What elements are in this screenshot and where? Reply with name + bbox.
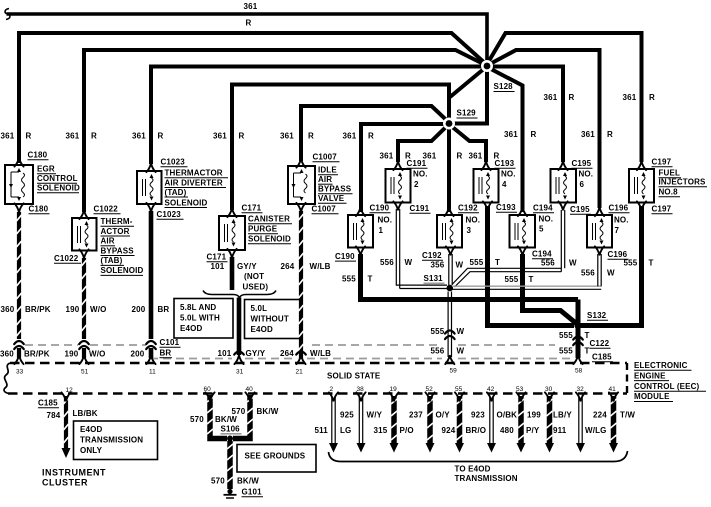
connector chevrons C122 on S132 wire bbox=[573, 337, 583, 346]
svg-text:T: T bbox=[368, 275, 373, 284]
svg-text:R: R bbox=[91, 132, 97, 141]
G101 label bbox=[242, 488, 264, 497]
svg-text:C185: C185 bbox=[592, 353, 612, 362]
svg-text:480: 480 bbox=[500, 426, 514, 435]
label 570 BK/W right wire bbox=[232, 407, 279, 416]
svg-text:361: 361 bbox=[581, 130, 595, 139]
svg-text:C1023: C1023 bbox=[157, 210, 182, 219]
injector C194 NO.5 box bbox=[510, 215, 536, 248]
connector symbols C1023 wire at interface C101 bbox=[146, 341, 156, 349]
label 101 GY/Y below bbox=[218, 349, 266, 358]
thin bus S131 right to C196 bbox=[452, 286, 601, 289]
injector C195 NO.6 box bbox=[551, 169, 577, 203]
label 555 W above connector bbox=[431, 327, 465, 336]
label GY/Y (NOT USED) bbox=[237, 262, 268, 292]
NO. 3 text bbox=[466, 216, 481, 236]
injector C191 NO.2 box bbox=[386, 169, 411, 203]
C195 label bottom bbox=[570, 205, 591, 214]
connector chevron bottom of C1022 bbox=[79, 249, 88, 257]
C191 label bottom bbox=[410, 204, 431, 213]
svg-text:TO E4OD: TO E4OD bbox=[455, 465, 491, 474]
svg-text:BK/W: BK/W bbox=[237, 477, 259, 486]
svg-text:C196: C196 bbox=[609, 204, 629, 213]
svg-text:AIR: AIR bbox=[318, 175, 332, 184]
svg-text:P/O: P/O bbox=[400, 426, 414, 435]
wire L2 to C180 bbox=[19, 33, 487, 163]
svg-text:C192: C192 bbox=[422, 251, 442, 260]
C1023 label bottom bbox=[157, 210, 184, 219]
S128 label bbox=[494, 82, 515, 92]
svg-text:W/LG: W/LG bbox=[585, 426, 606, 435]
svg-text:SOLENOID: SOLENOID bbox=[248, 235, 291, 244]
svg-text:MODULE: MODULE bbox=[634, 392, 670, 401]
label 555 T below C122 bbox=[559, 347, 590, 356]
label 556 W on C195 wire bbox=[541, 259, 577, 268]
label 361 R for C180 drop bbox=[1, 132, 32, 141]
svg-text:S131: S131 bbox=[424, 274, 444, 283]
wire 555 T from C190 to S132 bbox=[361, 254, 579, 300]
svg-text:C191: C191 bbox=[407, 159, 427, 168]
label 361 R for C171 drop bbox=[213, 132, 245, 141]
svg-text:SOLENOID: SOLENOID bbox=[101, 266, 144, 275]
fork at pin 59 bbox=[445, 356, 454, 364]
svg-text:556: 556 bbox=[380, 258, 394, 267]
EEC module dashed box top edge bbox=[10, 362, 627, 364]
connector chevron top of C1007 bbox=[296, 159, 305, 167]
gray connector interface line upper (C101 level) bbox=[25, 344, 555, 346]
label 237 O/Y bbox=[409, 411, 450, 420]
ground symbol G101 bbox=[224, 489, 237, 498]
svg-text:784: 784 bbox=[47, 411, 61, 420]
wire S128 diagonal to C194 drop bbox=[489, 68, 523, 212]
label 361 R for C191 drop bbox=[380, 152, 412, 161]
svg-text:E4OD: E4OD bbox=[180, 324, 202, 333]
pin 32 wire 911 W/LG bbox=[576, 392, 585, 452]
fork at pin 12 top bbox=[61, 392, 70, 400]
svg-text:11: 11 bbox=[149, 369, 156, 376]
EGR control solenoid C180 box bbox=[5, 165, 33, 204]
chevron bottom C190 bbox=[356, 246, 365, 254]
svg-text:511: 511 bbox=[315, 426, 329, 435]
svg-text:C1007: C1007 bbox=[313, 153, 338, 162]
svg-text:190: 190 bbox=[65, 350, 79, 359]
svg-text:55: 55 bbox=[455, 386, 463, 393]
svg-text:(TAD): (TAD) bbox=[165, 188, 187, 197]
C193 label top bbox=[495, 159, 516, 168]
svg-text:C194: C194 bbox=[533, 204, 553, 213]
C1022 label top bbox=[94, 205, 121, 214]
C185 label left bbox=[38, 399, 59, 408]
svg-text:VALVE: VALVE bbox=[318, 194, 345, 203]
S132 label bbox=[587, 311, 608, 320]
SEE GROUNDS box bbox=[237, 445, 316, 473]
svg-text:GY/Y: GY/Y bbox=[237, 262, 257, 271]
svg-text:THERMACTOR: THERMACTOR bbox=[165, 169, 223, 178]
THERMACTOR AIR BYPASS (TAB) SOLENOID text bbox=[101, 217, 144, 275]
svg-text:C191: C191 bbox=[410, 204, 430, 213]
svg-text:BR/PK: BR/PK bbox=[25, 305, 51, 314]
connector chevrons on pin 59 wire bbox=[445, 331, 455, 340]
wire stub to EEC pin 11 bbox=[149, 348, 154, 358]
svg-text:NO.8: NO.8 bbox=[659, 188, 679, 197]
svg-text:NO.: NO. bbox=[378, 216, 393, 225]
wire 200 BR solid below C1023 bbox=[149, 211, 154, 339]
wire S128 down then left to S129 bbox=[452, 68, 487, 124]
label 190 W/O above connector bbox=[66, 305, 107, 314]
svg-text:LB/Y: LB/Y bbox=[553, 411, 572, 420]
5.8L AND 5.0L WITH E4OD option box bbox=[174, 299, 233, 339]
splice node S129 bbox=[443, 118, 455, 130]
splice node S131 bbox=[447, 285, 454, 292]
C192 356 label bottom bbox=[422, 251, 445, 270]
wire 555 T from C194 to S132 bbox=[523, 254, 578, 324]
label 911 W/LG bbox=[553, 426, 606, 435]
pin 12 wire 784 LB/BK hatched to instrument cluster bbox=[64, 396, 69, 448]
C193 label bottom bbox=[496, 203, 517, 212]
svg-text:570: 570 bbox=[211, 477, 225, 486]
svg-text:C185: C185 bbox=[38, 399, 58, 408]
svg-text:C192: C192 bbox=[458, 204, 478, 213]
label 264 W/LB below bbox=[280, 349, 331, 358]
svg-text:G101: G101 bbox=[242, 488, 263, 497]
label 360 BR/PK below connector bbox=[0, 350, 50, 359]
label 361 R for C1022 drop bbox=[66, 132, 98, 141]
label 555 T above C122 bbox=[559, 331, 590, 340]
svg-text:C171: C171 bbox=[207, 253, 227, 262]
thin wire S131 down to EEC pin 59 bbox=[448, 292, 451, 358]
wire L5 to C171 and down to S129 bbox=[232, 85, 449, 211]
svg-text:R: R bbox=[368, 132, 374, 141]
svg-text:59: 59 bbox=[450, 368, 458, 375]
svg-text:315: 315 bbox=[374, 426, 388, 435]
CANISTER PURGE SOLENOID text bbox=[248, 215, 292, 244]
forks at pins 60 and 40 bbox=[205, 392, 254, 400]
C171 101 label bottom bbox=[207, 253, 228, 271]
svg-text:R: R bbox=[607, 130, 613, 139]
svg-text:C190: C190 bbox=[370, 204, 390, 213]
svg-text:BR: BR bbox=[160, 349, 172, 358]
svg-text:361: 361 bbox=[343, 132, 357, 141]
C190 label bottom bbox=[335, 252, 356, 261]
chevron bottom C197 bbox=[637, 201, 646, 209]
svg-text:T: T bbox=[585, 347, 590, 356]
svg-text:AIR DIVERTER: AIR DIVERTER bbox=[165, 178, 223, 187]
svg-text:556: 556 bbox=[581, 269, 595, 278]
splice node S106 bbox=[227, 436, 233, 442]
pin 19 wire 315 P/O bbox=[389, 392, 398, 452]
svg-text:3: 3 bbox=[467, 226, 472, 235]
wire S129 straight down to C192 bbox=[447, 125, 451, 212]
svg-text:CANISTER: CANISTER bbox=[248, 215, 290, 224]
label 784 LB/BK bbox=[47, 409, 98, 420]
svg-text:O/Y: O/Y bbox=[436, 411, 451, 420]
label 360 BR/PK above connector bbox=[1, 305, 51, 314]
svg-text:224: 224 bbox=[593, 411, 607, 420]
label 200 BR above connector bbox=[132, 305, 170, 314]
svg-text:356: 356 bbox=[431, 261, 445, 270]
thin wire 556 W from C191 to S131 bbox=[396, 209, 447, 289]
svg-text:S129: S129 bbox=[457, 109, 477, 118]
thin wire S131 diagonal to C195 bbox=[452, 210, 565, 287]
svg-text:58: 58 bbox=[575, 368, 583, 375]
wire L6 to C1007 and diagonal to S129 bbox=[301, 106, 449, 161]
svg-text:TRANSMISSION: TRANSMISSION bbox=[80, 436, 143, 445]
svg-text:R: R bbox=[457, 152, 463, 161]
svg-text:S128: S128 bbox=[494, 82, 514, 91]
svg-text:C195: C195 bbox=[572, 159, 592, 168]
chevron top C192 bbox=[444, 208, 453, 216]
injector C196 NO.7 box bbox=[587, 215, 612, 248]
injector C190 NO.1 box bbox=[348, 215, 373, 248]
C196 label top bbox=[609, 204, 630, 213]
svg-text:42: 42 bbox=[487, 386, 495, 393]
label 556 W on C191 wire bbox=[380, 258, 413, 267]
label 361 R for C194 drop bbox=[504, 130, 537, 139]
thermactor air bypass TAB solenoid C1022 box bbox=[72, 218, 97, 251]
svg-text:WITHOUT: WITHOUT bbox=[251, 315, 289, 324]
chevron bottom C192 bbox=[446, 246, 455, 254]
svg-text:361: 361 bbox=[213, 132, 227, 141]
pin 38 wire 925 W/Y bbox=[356, 392, 365, 452]
svg-text:19: 19 bbox=[390, 386, 398, 393]
svg-text:W/Y: W/Y bbox=[367, 411, 383, 420]
svg-text:THERM-: THERM- bbox=[101, 217, 133, 226]
pin 30 wire 199 LB/Y bbox=[545, 392, 554, 452]
label 264 W/LB upper bbox=[281, 262, 331, 271]
svg-text:5.0L WITH: 5.0L WITH bbox=[180, 314, 220, 323]
svg-text:C190: C190 bbox=[335, 252, 355, 261]
NO. 2 text bbox=[413, 170, 428, 190]
svg-text:31: 31 bbox=[236, 369, 244, 376]
svg-text:T: T bbox=[529, 275, 534, 284]
svg-text:361: 361 bbox=[280, 132, 294, 141]
svg-text:NO.: NO. bbox=[466, 216, 481, 225]
label 555 T on C193 wire bbox=[470, 258, 501, 267]
svg-text:361: 361 bbox=[1, 132, 15, 141]
svg-text:C1022: C1022 bbox=[54, 254, 79, 263]
svg-text:923: 923 bbox=[471, 411, 485, 420]
label 923 O/BK bbox=[471, 411, 517, 420]
label 361 R for C193 drop bbox=[469, 152, 500, 161]
svg-text:4: 4 bbox=[502, 180, 507, 189]
svg-text:W/LB: W/LB bbox=[310, 262, 331, 271]
connector chevron top of C180 bbox=[14, 158, 23, 166]
svg-text:555: 555 bbox=[559, 331, 573, 340]
svg-text:200: 200 bbox=[132, 305, 146, 314]
chevron bottom C194 bbox=[518, 246, 527, 254]
svg-text:555: 555 bbox=[559, 347, 573, 356]
svg-text:R: R bbox=[649, 93, 655, 102]
EEC module dashed box right edge bbox=[626, 363, 628, 394]
svg-text:CONTROL: CONTROL bbox=[37, 174, 78, 183]
svg-text:R: R bbox=[26, 132, 32, 141]
ELECTRONIC ENGINE CONTROL (EEC) MODULE label bbox=[634, 361, 706, 402]
THERMACTOR AIR DIVERTER (TAD) SOLENOID text bbox=[165, 169, 229, 208]
S129 label bbox=[457, 109, 478, 119]
EGR CONTROL SOLENOID text bbox=[37, 165, 80, 193]
svg-text:R: R bbox=[246, 19, 252, 28]
svg-text:W/O: W/O bbox=[89, 350, 105, 359]
svg-text:USED): USED) bbox=[243, 283, 269, 292]
svg-text:30: 30 bbox=[545, 386, 553, 393]
svg-text:5: 5 bbox=[539, 225, 544, 234]
C1007 label top bbox=[313, 153, 340, 162]
svg-text:360: 360 bbox=[0, 350, 14, 359]
connector chevron bottom of C171 bbox=[227, 249, 236, 257]
NO. 5 text bbox=[539, 215, 554, 234]
svg-text:TRANSMISSION: TRANSMISSION bbox=[455, 474, 518, 483]
svg-text:C197: C197 bbox=[652, 205, 672, 214]
wire S132 feeder from C190 branch down to node bbox=[576, 300, 581, 326]
svg-text:BK/W: BK/W bbox=[215, 415, 237, 424]
connector symbols C180 wire at interface bbox=[14, 341, 24, 349]
svg-text:360: 360 bbox=[1, 305, 15, 314]
NO. 1 text bbox=[378, 216, 393, 236]
chevron top C195 bbox=[558, 162, 567, 170]
wire S129 diagonal to C191 drop bbox=[398, 126, 448, 163]
connector symbols 101 wire at interface bbox=[234, 352, 244, 365]
svg-text:C171: C171 bbox=[242, 204, 262, 213]
svg-text:361: 361 bbox=[623, 93, 637, 102]
break squiggle at left end of bus bbox=[5, 9, 10, 20]
wire S128 diagonal to C196 drop bbox=[489, 50, 600, 208]
label 224 T/W bbox=[593, 411, 635, 420]
svg-text:C194: C194 bbox=[532, 250, 552, 259]
svg-text:NO.: NO. bbox=[501, 170, 516, 179]
arrowhead to instrument cluster bbox=[62, 448, 71, 458]
svg-text:5.0L: 5.0L bbox=[251, 304, 268, 313]
svg-text:21: 21 bbox=[296, 369, 304, 376]
connector chevron bottom of C1007 bbox=[296, 203, 305, 211]
svg-text:2: 2 bbox=[330, 386, 334, 393]
pin 2 wire 511 LG bbox=[329, 392, 338, 452]
splice node S128 bbox=[481, 60, 493, 72]
wire 190 W/O hatched below C1022 bbox=[82, 258, 87, 339]
chevron top C197 bbox=[637, 162, 646, 170]
NO. 7 text bbox=[614, 216, 629, 236]
connector chevron top of C1022 bbox=[79, 211, 88, 219]
thin wire 556 W from C196 down to bus bbox=[598, 254, 601, 286]
label 924 BR/O bbox=[442, 426, 487, 435]
C122 label bbox=[590, 339, 611, 348]
connector symbols C1007 wire at interface bbox=[296, 352, 306, 365]
connector chevron top of C171 bbox=[227, 209, 236, 217]
svg-text:555: 555 bbox=[342, 275, 356, 284]
svg-text:NO.: NO. bbox=[539, 215, 554, 224]
svg-text:C193: C193 bbox=[495, 159, 515, 168]
E4OD TRANSMISSION ONLY box bbox=[74, 421, 158, 460]
C101 BR label bbox=[160, 338, 181, 358]
wire 555 T from C193 to S132 bbox=[488, 206, 575, 326]
chevron top C190 bbox=[356, 208, 365, 216]
label 361 R for C195 drop bbox=[544, 93, 575, 102]
C180 label bottom bbox=[29, 205, 50, 214]
svg-text:C1022: C1022 bbox=[94, 205, 119, 214]
svg-text:EGR: EGR bbox=[37, 165, 55, 174]
C1023 label top bbox=[161, 158, 188, 167]
svg-text:W/LB: W/LB bbox=[310, 349, 331, 358]
svg-text:C101: C101 bbox=[160, 338, 180, 347]
wire L1 bus 361 top bbox=[7, 14, 488, 62]
svg-text:BR/O: BR/O bbox=[466, 426, 487, 435]
svg-text:555: 555 bbox=[505, 275, 519, 284]
svg-text:555: 555 bbox=[431, 327, 445, 336]
connector symbols C1022 wire at interface bbox=[79, 341, 89, 349]
svg-text:O/BK: O/BK bbox=[497, 411, 518, 420]
thermactor air diverter TAD solenoid C1023 box bbox=[137, 171, 162, 204]
svg-text:R: R bbox=[158, 132, 164, 141]
svg-text:W: W bbox=[457, 327, 465, 336]
C196 label bottom bbox=[608, 250, 629, 259]
C1022 label bottom bbox=[54, 254, 81, 263]
label 556 W below connector bbox=[431, 347, 465, 356]
C191 label top bbox=[407, 159, 428, 168]
EEC module jagged left break edge bbox=[4, 363, 10, 394]
svg-text:40: 40 bbox=[246, 386, 254, 393]
canister purge solenoid C171 box bbox=[219, 216, 245, 250]
svg-text:2: 2 bbox=[414, 180, 419, 189]
svg-text:S132: S132 bbox=[587, 311, 607, 320]
label 361 R for C1007 drop bbox=[280, 132, 314, 141]
svg-text:570: 570 bbox=[190, 415, 204, 424]
chevron bottom C196 bbox=[595, 246, 604, 254]
svg-text:ACTOR: ACTOR bbox=[101, 227, 130, 236]
INSTRUMENT CLUSTER label bbox=[42, 468, 106, 488]
svg-text:5.8L AND: 5.8L AND bbox=[180, 303, 216, 312]
svg-text:264: 264 bbox=[280, 349, 294, 358]
svg-text:264: 264 bbox=[281, 262, 295, 271]
svg-text:LG: LG bbox=[340, 426, 351, 435]
label 925 W/Y bbox=[340, 411, 383, 420]
svg-text:6: 6 bbox=[580, 180, 585, 189]
thin wire 356 W from C192 to S131 bbox=[449, 254, 452, 285]
svg-text:925: 925 bbox=[340, 411, 354, 420]
svg-text:361: 361 bbox=[244, 2, 258, 11]
svg-text:R: R bbox=[569, 93, 575, 102]
fork at pin 58 bbox=[573, 356, 582, 364]
svg-text:C180: C180 bbox=[29, 205, 49, 214]
svg-text:SOLENOID: SOLENOID bbox=[37, 184, 80, 193]
wire L4 to C1023 bbox=[151, 67, 485, 165]
wire L3 to C1022 bbox=[84, 50, 487, 212]
svg-text:NO.: NO. bbox=[614, 216, 629, 225]
svg-text:ELECTRONIC: ELECTRONIC bbox=[634, 361, 688, 370]
svg-text:101: 101 bbox=[211, 262, 225, 271]
svg-text:IDLE: IDLE bbox=[318, 166, 337, 175]
svg-text:361: 361 bbox=[504, 130, 518, 139]
C171 label top bbox=[242, 204, 263, 213]
svg-text:38: 38 bbox=[357, 386, 365, 393]
IDLE AIR BYPASS VALVE text bbox=[318, 166, 353, 204]
svg-text:7: 7 bbox=[615, 226, 620, 235]
chevron bottom C191 bbox=[393, 201, 402, 209]
svg-text:R: R bbox=[308, 132, 314, 141]
label 555 T on C194 wire bbox=[505, 275, 534, 284]
wire 360 BR/PK hatched below C180 bbox=[17, 212, 22, 339]
svg-text:(TAB): (TAB) bbox=[101, 256, 123, 265]
chevron top C194 bbox=[518, 208, 527, 216]
label 361 R for C192 drop bbox=[423, 152, 463, 161]
svg-text:SEE GROUNDS: SEE GROUNDS bbox=[245, 452, 306, 461]
svg-text:555: 555 bbox=[624, 259, 638, 268]
svg-text:361: 361 bbox=[380, 152, 394, 161]
label 361 R for C196 drop bbox=[581, 130, 613, 139]
S106 label bbox=[221, 425, 242, 434]
svg-text:190: 190 bbox=[66, 305, 80, 314]
pin 55 wire 924 BR/O bbox=[455, 392, 464, 452]
C197 label top bbox=[652, 158, 673, 167]
wire 570 BK/W from pin 60 to S106 bbox=[207, 395, 227, 439]
